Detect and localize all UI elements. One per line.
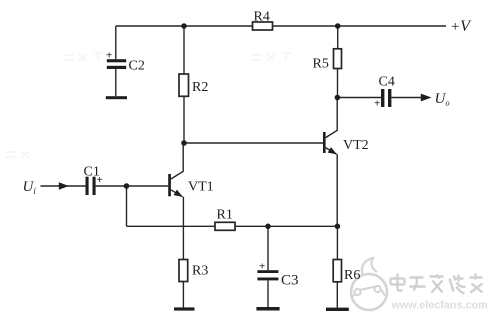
svg-text:R5: R5	[313, 57, 329, 72]
wire C2 top lead	[115, 26, 117, 59]
wire C4 left lead	[337, 97, 381, 99]
node dot rail-R2	[181, 23, 187, 29]
wire input lead	[41, 185, 61, 187]
wire R3 bottom lead	[182, 282, 184, 308]
capacitor C3 plates	[257, 270, 278, 273]
resistor R4	[253, 22, 273, 30]
svg-text:C4: C4	[379, 75, 395, 90]
node dot bottom-R6	[335, 224, 341, 230]
transistor VT1 base bar	[168, 174, 171, 196]
wire VT2 collector	[326, 98, 338, 138]
svg-text:+: +	[106, 50, 112, 62]
resistor R5	[334, 49, 342, 69]
capacitor C1 plates	[86, 177, 89, 195]
wire VT1 emitter down through bottom wire to R3	[171, 190, 184, 260]
svg-text:R4: R4	[254, 10, 270, 25]
svg-text:R2: R2	[192, 80, 208, 95]
VT1 emitter arrowhead	[174, 190, 183, 197]
wire bottom left to R1	[127, 225, 216, 227]
wire C1 to VT1 base	[96, 185, 169, 187]
wire top rail left	[116, 25, 253, 27]
svg-text:C3: C3	[281, 273, 299, 289]
resistor R3	[179, 260, 188, 282]
output arrowhead	[421, 94, 432, 102]
wire C3 bottom lead	[267, 280, 269, 307]
ground bar under C3	[256, 307, 279, 311]
node dot bottom-C3	[265, 224, 271, 230]
wire base of VT2 from node	[184, 142, 323, 144]
ground bar under C2	[106, 96, 127, 99]
wire C3 top lead	[267, 226, 269, 270]
svg-text:www.elecfans.com: www.elecfans.com	[391, 300, 488, 312]
svg-text:R3: R3	[192, 264, 208, 279]
wire top rail right	[273, 25, 447, 27]
resistor R2	[179, 74, 189, 96]
node dot R5-C4	[335, 95, 341, 101]
capacitor C2 plates	[107, 59, 126, 62]
node dot rail-R5	[335, 23, 341, 29]
VT2 emitter arrowhead	[328, 147, 337, 154]
faint ghost watermark blobs	[6, 53, 291, 158]
node dot C1-base	[124, 183, 130, 189]
svg-text:VT2: VT2	[343, 138, 369, 153]
node dot R2-base	[181, 140, 187, 146]
svg-text:+: +	[97, 174, 103, 186]
svg-text:+: +	[259, 261, 265, 273]
wire R2 bottom lead	[183, 96, 185, 143]
wire R2 top lead	[183, 26, 185, 74]
watermark chinese text	[391, 274, 483, 294]
ground bar under R6	[326, 308, 349, 311]
wire VT2 emitter	[326, 148, 338, 227]
wire input arrow to C1	[66, 185, 86, 187]
capacitor C4 plates	[381, 89, 384, 107]
wire C4 right lead to output arrow	[391, 97, 423, 99]
svg-text:C2: C2	[129, 59, 145, 74]
wire R5 top lead	[337, 26, 339, 49]
wire R1 to R6 node	[235, 225, 337, 227]
transistor VT2 base bar	[323, 132, 326, 153]
watermark logo circle	[351, 258, 387, 310]
wire R6 top lead	[336, 226, 338, 259]
wire VT1 collector	[171, 143, 183, 179]
svg-text:R1: R1	[217, 208, 233, 223]
wire C2 bottom lead	[115, 69, 117, 96]
wire node E down	[126, 186, 128, 226]
svg-text:R6: R6	[344, 268, 360, 283]
wire R6 bottom lead	[336, 282, 338, 308]
svg-text:VT1: VT1	[188, 180, 214, 195]
resistor R1	[215, 222, 235, 230]
svg-text:Ui: Ui	[23, 179, 37, 196]
resistor R6	[333, 260, 341, 282]
wire R5 bottom lead	[337, 69, 339, 98]
input arrowhead	[59, 182, 69, 190]
ground bar under R3	[174, 307, 195, 310]
svg-text:Uo: Uo	[435, 91, 450, 108]
svg-text:+V: +V	[450, 18, 472, 35]
svg-text:+: +	[374, 98, 380, 110]
